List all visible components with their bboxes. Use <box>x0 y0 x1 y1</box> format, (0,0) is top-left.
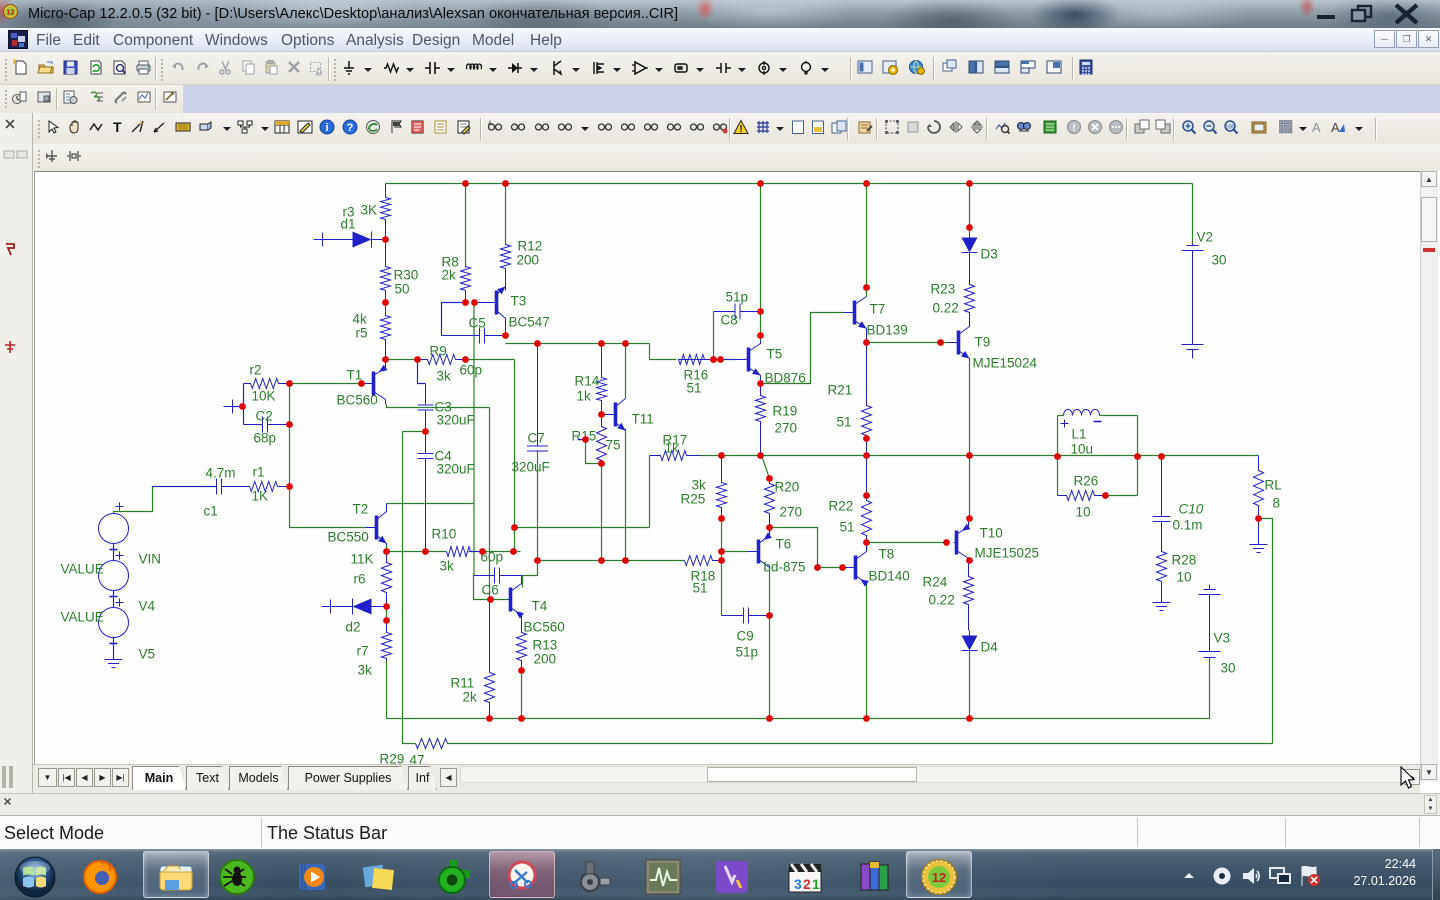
transistor T8 BD140 <box>845 550 869 587</box>
svg-text:T: T <box>113 119 122 135</box>
junction dots output node <box>1054 453 1165 460</box>
wire T7 collector column <box>866 184 868 297</box>
junction dot RL bottom <box>1255 515 1262 522</box>
minus of L1 <box>1094 421 1102 423</box>
junction dots R14 T11 base <box>598 411 605 418</box>
capacitor C10 0.1m <box>1153 457 1171 549</box>
transistor T9 MJE15024 <box>948 326 970 362</box>
wire y527 cross line <box>515 527 650 529</box>
junction dot R11 bottom rail <box>486 715 493 722</box>
resistor R16 51 <box>679 355 738 365</box>
junction dots R15 tap <box>582 436 605 467</box>
svg-text:i: i <box>325 122 328 134</box>
junction dots C8 <box>710 308 764 363</box>
resistor R15 75 <box>597 415 607 464</box>
resistor r2 10K <box>244 379 290 389</box>
resistor R28 10 <box>1157 549 1167 595</box>
resistor R24 0.22 <box>964 563 974 631</box>
junction dots T5 pins <box>757 332 764 387</box>
svg-text:100: 100 <box>1225 125 1234 131</box>
wire r7 bottom corner <box>386 661 388 719</box>
wire VIN to V4 <box>113 544 115 561</box>
resistor RL 8 <box>1254 456 1264 519</box>
wire R20 bottom to T8 base jog <box>770 528 845 568</box>
wire feedback line y743 <box>448 743 1273 745</box>
wire C5 left box <box>442 303 466 336</box>
wire C7 bottom column <box>537 452 539 561</box>
junction dots T7 pins <box>863 284 870 346</box>
wire L1 left corner <box>1058 415 1064 417</box>
resistor R9 3k <box>418 355 466 365</box>
wire C8 left drop to base line <box>713 312 715 360</box>
wire R16 line left lead <box>650 359 677 361</box>
svg-text:3: 3 <box>794 876 802 892</box>
svg-text:A: A <box>1312 120 1321 135</box>
svg-text:A: A <box>488 121 492 127</box>
wire T10 collector up to rail <box>969 456 971 519</box>
wire x649 vertical to R17 <box>649 456 651 528</box>
wire T8 collector node to T10 base <box>867 542 947 544</box>
wire R25 bottom to T6 base node <box>721 519 723 561</box>
junction dots T4 base node <box>487 596 494 603</box>
battery V3 30 <box>1199 585 1221 658</box>
svg-text:2: 2 <box>803 876 811 892</box>
wire T1 collector line y407 <box>387 405 490 408</box>
junction dots R20 <box>766 475 773 531</box>
wire R8 column from top rail <box>465 184 467 265</box>
transistor T11 <box>602 399 626 431</box>
transistor T7 BD139 <box>844 297 867 335</box>
wire y560 line C7 to R18 <box>538 560 685 562</box>
wire D4 bottom to rail <box>969 652 971 719</box>
transistor T2 BC550 <box>366 504 387 546</box>
wire diagonal rail to R20 <box>762 456 770 479</box>
wire T2 emitter R10 line <box>387 546 447 552</box>
wire T5 collector column <box>760 184 762 341</box>
wire T5 base stub <box>721 359 738 361</box>
wire nc to box <box>233 406 244 408</box>
wire source to c1 <box>114 487 217 514</box>
source V5 circle <box>99 608 129 638</box>
wire V5 to ground <box>113 638 115 659</box>
resistor r6 11K <box>382 552 392 607</box>
wire T7 emitter to T9 base <box>867 342 941 344</box>
plus of V5 <box>116 599 124 607</box>
capacitor C3 320uF <box>418 384 434 432</box>
wire V3 bottom return <box>1209 658 1211 719</box>
wire C3-C4 junction to feedback column <box>403 431 426 433</box>
capacitor C7 320uF <box>527 344 548 452</box>
plus of VIN <box>116 503 124 511</box>
wire R10 right segment <box>469 551 521 553</box>
svg-text:1: 1 <box>812 876 820 892</box>
junction dots y560 line <box>534 557 629 564</box>
resistor R22 51 <box>862 456 872 543</box>
wire R15 tap stub <box>586 440 602 464</box>
resistor r3 3K <box>381 184 391 240</box>
junction dots C9 T6 collector <box>766 612 773 722</box>
resistor R14 1k <box>597 344 607 415</box>
wire T4 collector to C6 right <box>522 576 524 588</box>
wire C6 left box <box>474 576 508 600</box>
junction dots T9 T10 column <box>937 224 973 722</box>
wire x514 vertical down to R10 line <box>514 360 516 552</box>
junction dots on top rail <box>462 180 973 187</box>
wire r2C2 box left vertical <box>243 384 245 425</box>
ground under RL <box>1250 519 1268 553</box>
junction dots R10 line <box>383 548 517 555</box>
junction dots R16 right T5 base <box>710 356 724 363</box>
capacitor C6 60p <box>474 568 523 584</box>
junction dots T8 base link <box>814 564 846 571</box>
transistor T10 MJE15025 <box>954 519 971 563</box>
wire R15 bottom column <box>601 464 603 561</box>
junction dots R21 R22 T8 <box>863 435 870 722</box>
wire input node to T1 base <box>290 383 364 385</box>
svg-text:!: ! <box>739 124 742 135</box>
transistor T1 BC560 <box>364 360 388 405</box>
plus of V4 <box>116 552 124 560</box>
resistor R25 3k <box>717 456 727 519</box>
wire T6 base stub <box>722 551 748 553</box>
junction dots R9 node <box>414 356 469 363</box>
wire C6 right to C7 node <box>523 561 538 576</box>
wire L1-R26 left vertical <box>1057 416 1059 496</box>
wire T3 base column x473 <box>473 303 475 576</box>
wire R9 right to corner x514 <box>466 359 515 361</box>
capacitor C4 320uF <box>418 432 434 552</box>
plus of L1 <box>1061 420 1069 428</box>
resistor R21 51 <box>862 335 872 456</box>
wire T8 emitter column to rail <box>866 582 868 719</box>
resistor R18 51 <box>685 556 722 566</box>
no-connect stub at r2 C2 box <box>224 400 233 414</box>
resistor R10 3k <box>447 547 483 557</box>
resistor R17 1k <box>650 451 701 461</box>
wire r2C2 box right vertical <box>289 384 291 425</box>
wire feedback column x402 <box>403 432 416 744</box>
diode D3 <box>962 233 978 259</box>
wire RL return right side <box>1259 519 1273 744</box>
capacitor C8 51p <box>714 304 761 320</box>
capacitor C9 51p <box>722 608 770 624</box>
resistor R29 47 <box>416 739 448 749</box>
junction dots left column r3 d1 R30 r5 <box>382 236 389 363</box>
wire R12 column from top rail <box>505 184 507 243</box>
wire mid rail top y343 <box>506 343 650 345</box>
junction dots input box <box>239 380 293 490</box>
resistor R26 10 <box>1058 491 1106 501</box>
transistor T3 BC547 <box>475 287 506 336</box>
resistor R13 200 <box>517 618 527 671</box>
minus of V4 <box>110 596 118 598</box>
resistor R23 0.22 <box>965 259 975 326</box>
junction dots T3 base node <box>462 299 478 306</box>
svg-text:12: 12 <box>6 8 14 17</box>
junction dot C5 right T3 emitter <box>502 332 509 339</box>
no-connect stub at d1 <box>314 233 323 247</box>
resistor R8 2k <box>461 265 471 303</box>
wire node r5-R9 horizontal <box>386 359 418 361</box>
minus of VIN <box>110 549 118 551</box>
wire R26 right segment <box>1106 495 1138 497</box>
resistor R30 <box>381 240 391 303</box>
svg-text:12: 12 <box>932 870 946 885</box>
junction dots R25 T6 base <box>718 515 725 564</box>
wire C3 top jog <box>418 360 426 384</box>
transistor T5 BD876 <box>738 341 761 384</box>
junction dots mid rail y455 <box>718 452 973 459</box>
wire d2 node column <box>386 607 388 621</box>
source VIN circle <box>99 514 129 544</box>
wire V4 to V5 <box>113 591 115 608</box>
wire T11 collector column <box>625 344 627 399</box>
resistor r1 1K <box>222 482 290 492</box>
svg-text:!: ! <box>1072 123 1075 134</box>
capacitor C2 68p <box>244 417 290 433</box>
battery V2 30 <box>1182 244 1204 359</box>
diode D4 <box>962 631 978 652</box>
diode d1 <box>323 232 386 248</box>
inductor L1 10u <box>1064 409 1100 415</box>
no-connect stub at d2 <box>322 600 331 614</box>
wire y343 corner down to R16 line <box>649 344 651 360</box>
wire C2 to r1 vertical <box>289 425 291 487</box>
svg-text:A: A <box>1331 120 1340 135</box>
wire R22 bottom to T8 collector <box>866 543 868 551</box>
diode d2 <box>331 599 387 615</box>
minus of V5 <box>110 643 118 645</box>
capacitor c1 4.7m <box>153 479 250 495</box>
junction dot C3 C4 node <box>422 428 429 435</box>
resistor R19 270 <box>756 384 766 456</box>
junction dot x514 y527 <box>511 524 518 531</box>
wire T2 collector line y503 <box>387 503 474 505</box>
wire T5 emitter to T7 base jog <box>761 313 844 384</box>
wire T9 base lead <box>941 342 948 344</box>
wire x489 vertical C3 to T4 base node <box>489 408 491 600</box>
wire R20 bottom to T6 emitter <box>769 528 771 537</box>
junction dot T1 base <box>358 380 365 387</box>
wire bottom rail <box>387 718 1210 720</box>
capacitor C5 60p <box>442 328 506 344</box>
resistor R20 270 <box>765 479 775 528</box>
transistor T6 bd-875 <box>748 532 772 567</box>
svg-text:?: ? <box>347 122 354 134</box>
junction dot R26 right <box>1102 492 1109 499</box>
junction dots d2 node <box>383 603 390 624</box>
resistor R12 200 <box>501 243 511 291</box>
junction dots y343 rail <box>534 340 629 347</box>
wire r1 node down to T2 base <box>290 487 366 528</box>
wire L1-R26 right vertical <box>1137 416 1139 496</box>
wire mid rail y455 output line <box>701 455 1259 457</box>
wire R15 tap tick <box>578 439 586 441</box>
wire T9 emitter down to rail <box>969 362 971 456</box>
wire T6 collector column to rail <box>769 568 771 719</box>
transistor T4 BC560 <box>508 576 524 619</box>
wire L1 right corner <box>1100 415 1138 417</box>
wire T11 emitter column <box>625 429 627 561</box>
wire R13 bottom to rail <box>521 671 523 719</box>
source V4 circle <box>99 561 129 591</box>
ground under V5 <box>105 652 123 668</box>
ground under R28 <box>1153 595 1171 611</box>
wire V2 positive lead drop <box>1192 184 1194 244</box>
wire D3 top lead column <box>969 184 971 233</box>
resistor R11 2k <box>485 600 495 719</box>
resistor r5 4k <box>381 303 391 360</box>
wire top supply rail <box>386 183 1193 185</box>
junction dots R13 bottom <box>518 667 525 722</box>
wire T6 base node down to C9 <box>721 561 723 616</box>
resistor r7 3k <box>382 621 392 661</box>
